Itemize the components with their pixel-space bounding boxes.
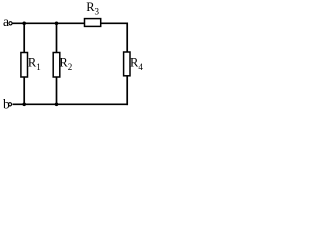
svg-text:a: a: [3, 14, 9, 29]
svg-text:b: b: [3, 96, 10, 111]
